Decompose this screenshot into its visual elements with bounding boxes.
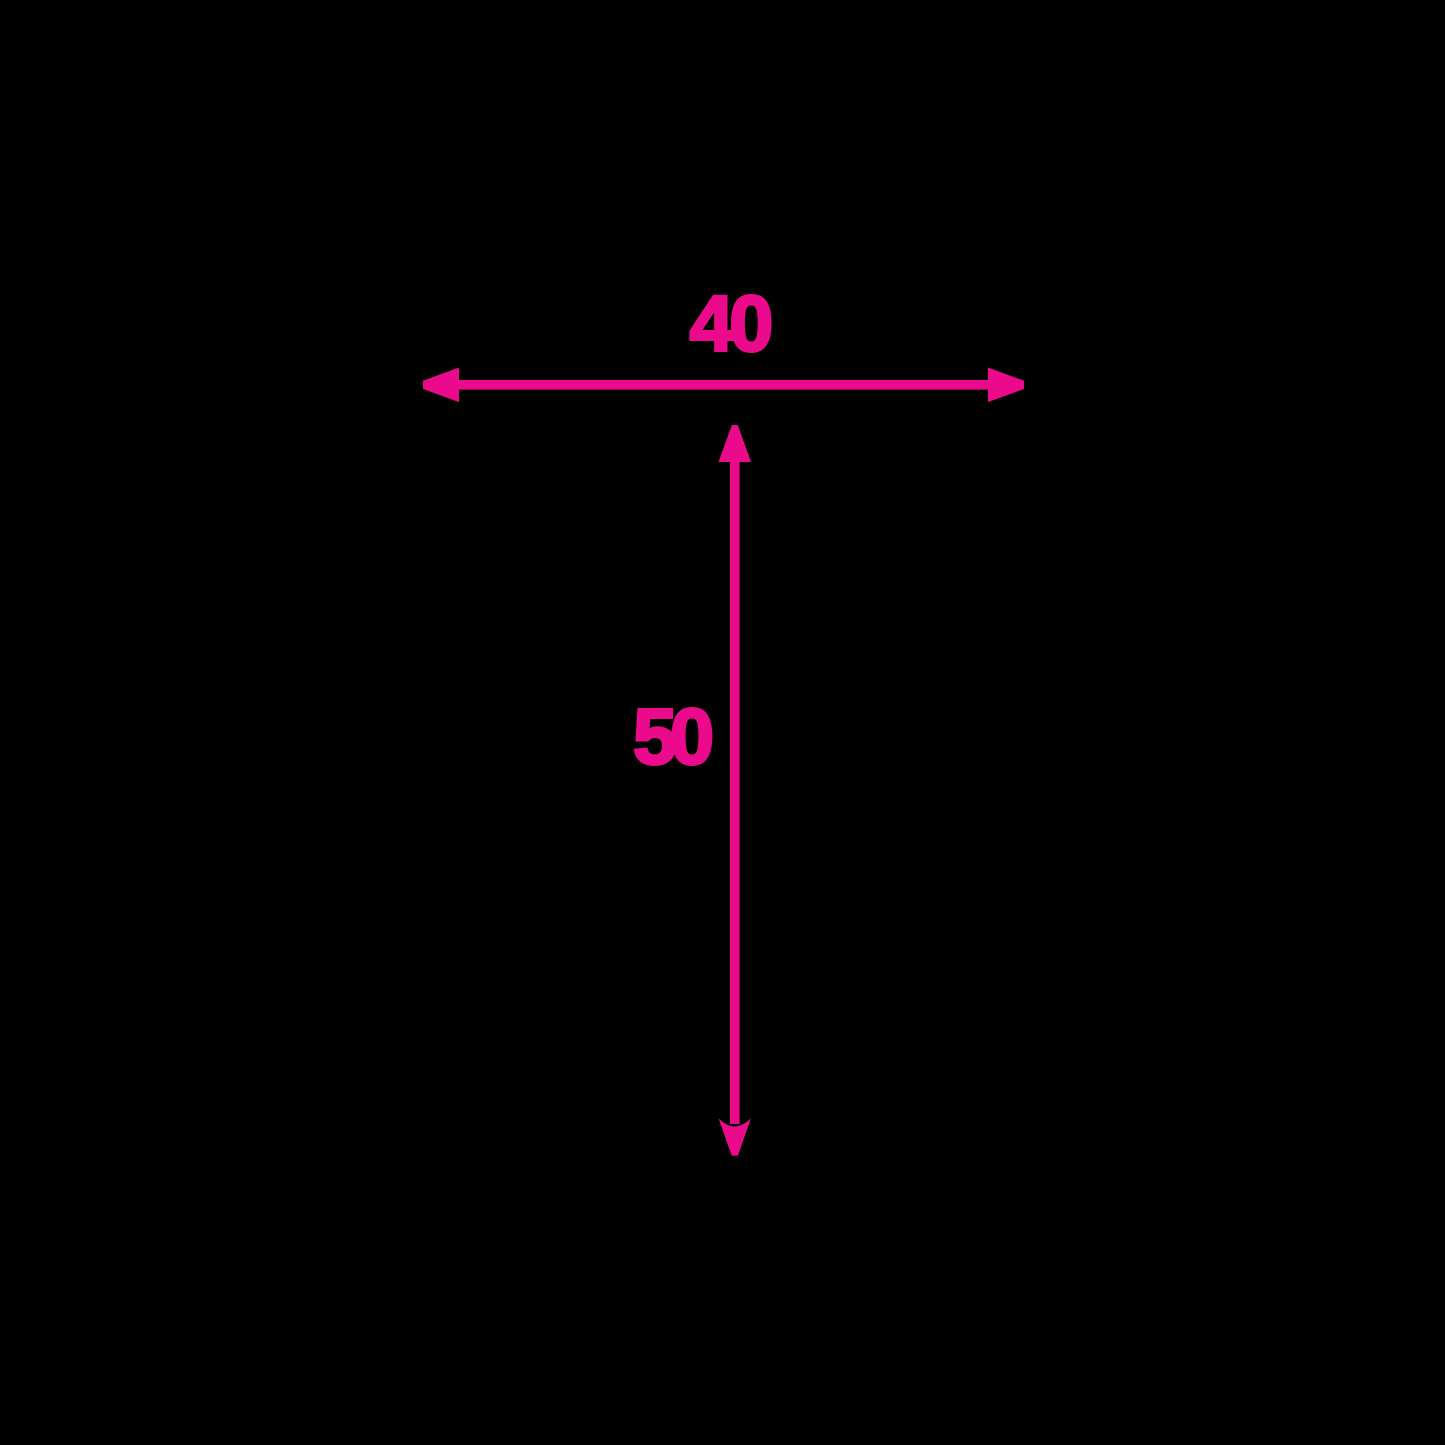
bottom arrowhead [719,1118,751,1155]
left arrowhead [423,368,459,403]
wire [452,380,992,390]
vertical dimension arrow (height 50) [719,425,752,1156]
svg-text:50: 50 [633,692,714,781]
top arrowhead [719,425,752,462]
wire [730,456,740,1124]
right arrowhead [988,368,1024,403]
svg-text:40: 40 [690,279,774,368]
horizontal dimension arrow (width 40) [423,368,1024,403]
